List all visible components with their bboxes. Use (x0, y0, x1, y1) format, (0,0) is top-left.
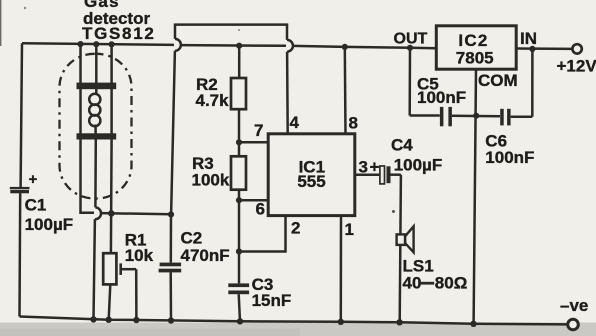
svg-text:C1: C1 (25, 196, 47, 215)
svg-text:4: 4 (290, 113, 300, 132)
svg-text:–ve: –ve (560, 296, 588, 315)
svg-text:C4: C4 (391, 136, 413, 155)
svg-text:40: 40 (403, 274, 422, 293)
svg-text:C2: C2 (181, 229, 203, 248)
svg-text:OUT: OUT (394, 31, 428, 48)
svg-text:LS1: LS1 (403, 256, 434, 275)
svg-text:3: 3 (359, 158, 368, 177)
svg-text:+: + (29, 171, 38, 188)
svg-text:TGS812: TGS812 (82, 24, 156, 43)
svg-text:7805: 7805 (456, 49, 494, 68)
svg-text:100µF: 100µF (25, 215, 74, 234)
svg-text:IN: IN (520, 29, 537, 48)
svg-text:100nF: 100nF (417, 88, 466, 107)
svg-text:555: 555 (297, 172, 325, 191)
svg-text:COM: COM (478, 71, 518, 90)
svg-text:8: 8 (349, 114, 358, 133)
svg-text:4.7k: 4.7k (196, 91, 230, 110)
svg-text:6: 6 (256, 200, 265, 219)
svg-text:7: 7 (254, 121, 263, 140)
svg-text:2: 2 (291, 219, 300, 238)
svg-text:1: 1 (345, 220, 354, 239)
svg-text:10k: 10k (125, 246, 154, 265)
svg-text:15nF: 15nF (252, 291, 292, 310)
svg-text:+: + (370, 158, 380, 177)
svg-text:100k: 100k (192, 171, 230, 190)
svg-text:80Ω: 80Ω (435, 274, 468, 293)
svg-text:IC2: IC2 (458, 31, 488, 50)
svg-text:470nF: 470nF (181, 246, 230, 265)
svg-text:100nF: 100nF (485, 148, 534, 167)
svg-text:100µF: 100µF (394, 156, 443, 175)
svg-text:+12V: +12V (557, 56, 596, 75)
